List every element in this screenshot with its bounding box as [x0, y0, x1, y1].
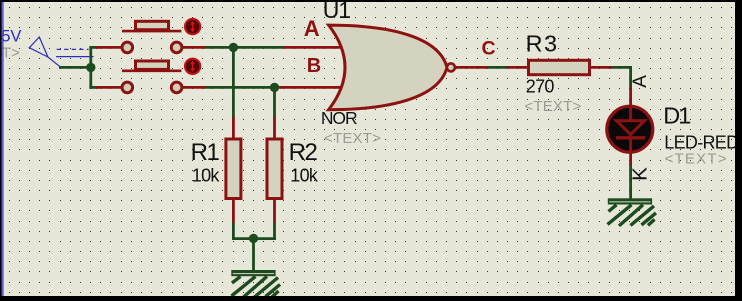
svg-text:270: 270	[526, 77, 555, 97]
svg-text:B: B	[307, 55, 321, 77]
svg-text:<TEXT>: <TEXT>	[324, 130, 381, 147]
svg-text:R1: R1	[191, 139, 220, 166]
svg-text:D1: D1	[663, 102, 690, 128]
svg-text:NOR: NOR	[321, 108, 357, 128]
svg-text:U1: U1	[323, 0, 351, 23]
svg-text:<TEXT>: <TEXT>	[524, 98, 581, 115]
svg-text:C: C	[482, 37, 496, 59]
svg-text:A: A	[630, 75, 651, 88]
svg-text:LED-RED: LED-RED	[664, 132, 739, 152]
svg-text:R3: R3	[526, 31, 559, 57]
svg-text:R2: R2	[289, 139, 318, 166]
svg-text:10k: 10k	[290, 166, 319, 186]
svg-text:K: K	[629, 167, 652, 181]
svg-text:<TEXT>: <TEXT>	[665, 151, 728, 168]
svg-text:A: A	[304, 16, 320, 41]
svg-text:5V: 5V	[1, 28, 21, 46]
svg-text:10k: 10k	[192, 166, 221, 186]
